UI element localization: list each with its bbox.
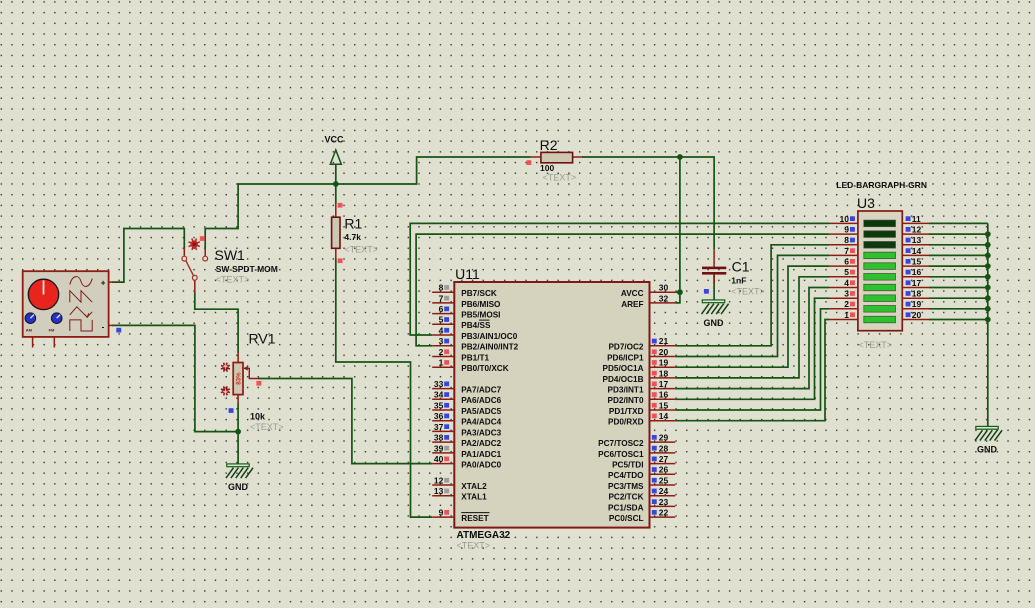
svg-text:AVCC: AVCC: [621, 289, 644, 298]
svg-text:XTAL1: XTAL1: [461, 493, 487, 502]
node: R2/C1/AVCC junction: [677, 154, 683, 160]
pin 33 PA7/ADC7: [432, 379, 501, 395]
svg-text:PA0/ADC0: PA0/ADC0: [461, 461, 501, 470]
svg-text:PB4/SS: PB4/SS: [461, 321, 491, 330]
wire: RV1 wiper to U11 pin 40 PA0: [258, 379, 432, 464]
pin 32 AREF: [621, 293, 675, 309]
svg-text:PA7/ADC7: PA7/ADC7: [461, 386, 501, 395]
svg-text:AREF: AREF: [621, 300, 643, 309]
svg-text:1: 1: [844, 310, 849, 320]
LED segment 8: [864, 295, 896, 302]
potentiometer RV1 10k: [221, 331, 284, 432]
svg-text:1: 1: [439, 358, 444, 368]
svg-text:-: -: [102, 322, 105, 331]
wire: U3 pin 19 to ground bus: [929, 308, 988, 310]
svg-text:PC4/TDO: PC4/TDO: [608, 471, 644, 480]
svg-text:SW-SPDT-MOM: SW-SPDT-MOM: [216, 264, 278, 274]
node: bus junction at U3 pin 16: [985, 274, 991, 280]
svg-text:3: 3: [844, 289, 849, 299]
svg-text:PC7/TOSC2: PC7/TOSC2: [598, 439, 644, 448]
LED segment 6: [864, 274, 896, 281]
svg-text:14: 14: [912, 246, 922, 256]
generator - pin state square: [116, 328, 121, 333]
pin 38 PA2/ADC2: [432, 433, 501, 449]
svg-text:PA1/ADC1: PA1/ADC1: [461, 450, 501, 459]
pin 15 (bargraph cathode): [902, 257, 929, 267]
pin 20 (bargraph cathode): [902, 310, 929, 320]
pin 26 PC4/TDO: [608, 465, 675, 481]
svg-text:GND: GND: [977, 445, 998, 455]
wire: generator + output to SW1 common: [112, 229, 184, 283]
signal generator (virtual instrument): [23, 271, 113, 347]
svg-text:FM: FM: [49, 328, 55, 333]
pin 16 PD2/INT0: [608, 390, 676, 406]
pin 21 PD7/OC2: [608, 336, 675, 352]
svg-text:LED-BARGRAPH-GRN: LED-BARGRAPH-GRN: [836, 180, 927, 190]
pin 30 AVCC: [621, 283, 675, 299]
pin 34 PA6/ADC6: [432, 390, 501, 406]
pin 4 PB3/AIN1/OC0: [432, 325, 518, 341]
node: bus junction at U3 pin 12: [985, 231, 991, 237]
svg-text:4: 4: [844, 278, 849, 288]
svg-text:20: 20: [659, 347, 669, 357]
svg-text:PD0/RXD: PD0/RXD: [608, 418, 644, 427]
wire: ground bus vertical to GND: [987, 223, 989, 426]
svg-text:17: 17: [912, 278, 922, 288]
LED segment 3: [864, 242, 896, 249]
svg-text:U3: U3: [857, 195, 875, 211]
pin 13 XTAL1: [432, 486, 487, 502]
pin 9 (bargraph anode): [829, 225, 858, 235]
wire: C1 bottom to GND: [713, 275, 715, 301]
node: ground node below RV1: [235, 429, 241, 435]
svg-text:C1: C1: [732, 258, 750, 274]
svg-text:13: 13: [434, 486, 444, 496]
svg-text:ATMEGA32: ATMEGA32: [457, 530, 511, 541]
svg-text:12: 12: [434, 475, 444, 485]
svg-text:21: 21: [659, 336, 669, 346]
svg-text:22: 22: [659, 508, 669, 518]
svg-text:PA2/ADC2: PA2/ADC2: [461, 439, 501, 448]
wire: rail down to AVCC and AREF pins: [675, 157, 680, 303]
svg-text:16: 16: [659, 390, 669, 400]
svg-text:U11: U11: [455, 266, 480, 282]
pin 27 PC5/TDI: [612, 454, 675, 470]
LED segment 9: [864, 306, 896, 313]
pin 6 PB5/MOSI: [432, 304, 500, 320]
svg-text:PD4/OC1B: PD4/OC1B: [603, 375, 644, 384]
svg-text:<TEXT>: <TEXT>: [543, 173, 577, 183]
svg-text:2: 2: [439, 347, 444, 357]
svg-text:RESET: RESET: [461, 514, 488, 523]
svg-text:40: 40: [434, 454, 444, 464]
svg-text:PB1/T1: PB1/T1: [461, 353, 489, 362]
svg-text:19: 19: [659, 358, 669, 368]
switch SW1 SW-SPDT-MOM: [182, 236, 278, 293]
svg-text:PC0/SCL: PC0/SCL: [609, 514, 644, 523]
wire: U11 PD0 to U3 pin 1: [675, 320, 829, 421]
pin 14 (bargraph cathode): [902, 246, 929, 256]
svg-text:19: 19: [912, 299, 922, 309]
node: AVCC pin junction: [677, 289, 683, 295]
svg-text:SW1: SW1: [215, 247, 246, 263]
svg-text:4: 4: [439, 325, 444, 335]
wire: VCC symbol to junction: [335, 164, 337, 184]
svg-text:PC6/TOSC1: PC6/TOSC1: [598, 450, 644, 459]
wire: U3 pin 13 to ground bus: [929, 244, 988, 246]
svg-text:10k: 10k: [250, 412, 266, 422]
svg-text:<TEXT>: <TEXT>: [344, 245, 378, 255]
pin 12 XTAL2: [432, 475, 487, 491]
pin 5 (bargraph anode): [829, 267, 858, 277]
svg-text:PA6/ADC6: PA6/ADC6: [461, 396, 501, 405]
pin 5 PB4/SS: [432, 315, 491, 331]
pin 20 PD6/ICP1: [607, 347, 675, 363]
ground below RV1: [226, 464, 253, 492]
pin 24 PC2/TCK: [608, 486, 675, 502]
LED segment 1: [864, 220, 896, 227]
svg-text:35: 35: [434, 400, 444, 410]
power symbol VCC: [325, 135, 345, 165]
pin 14 PD0/RXD: [608, 411, 675, 427]
svg-text:PC2/TCK: PC2/TCK: [608, 493, 643, 502]
node: bus junction at U3 pin 20: [985, 317, 991, 323]
svg-text:9: 9: [439, 508, 444, 518]
pin 11 (bargraph cathode): [902, 214, 929, 224]
node: VCC/R1/SW1/R2 junction: [333, 181, 339, 187]
wire: U11 PD3 to U3 pin 4: [675, 288, 829, 389]
pin 8 (bargraph anode): [829, 235, 858, 245]
svg-text:RV1: RV1: [249, 331, 276, 347]
svg-text:PC1/SDA: PC1/SDA: [608, 503, 644, 512]
svg-text:9: 9: [844, 225, 849, 235]
pin 13 (bargraph cathode): [902, 235, 929, 245]
svg-text:37: 37: [434, 422, 444, 432]
wire: U3 pin 12 to ground bus: [929, 233, 988, 235]
svg-text:XTAL2: XTAL2: [461, 482, 487, 491]
pin 9 RESET: [432, 508, 489, 524]
svg-text:5: 5: [844, 267, 849, 277]
pin 23 PC1/SDA: [608, 497, 675, 513]
svg-text:PB3/AIN1/OC0: PB3/AIN1/OC0: [461, 332, 517, 341]
svg-text:38: 38: [434, 433, 444, 443]
pin 19 PD5/OC1A: [603, 358, 676, 374]
pin 4 (bargraph anode): [829, 278, 858, 288]
pin 25 PC3/TMS: [608, 475, 675, 491]
pin 29 PC7/TOSC2: [598, 433, 675, 449]
svg-text:PB7/SCK: PB7/SCK: [461, 289, 497, 298]
pin 6 (bargraph anode): [829, 257, 858, 267]
svg-text:+: +: [101, 278, 106, 287]
wire: R2 right to C1 top / AVCC rail: [582, 157, 714, 250]
svg-text:6: 6: [844, 257, 849, 267]
svg-text:29: 29: [659, 433, 669, 443]
wire: U11 PD2 to U3 pin 3: [675, 298, 829, 399]
svg-text:14: 14: [659, 411, 669, 421]
svg-text:5: 5: [439, 315, 444, 325]
pin 37 PA3/ADC3: [432, 422, 501, 438]
wire: U3 pin 14 to ground bus: [929, 254, 988, 256]
svg-text:13: 13: [912, 235, 922, 245]
svg-text:PA3/ADC3: PA3/ADC3: [461, 428, 501, 437]
svg-text:11: 11: [912, 214, 921, 224]
svg-text:8: 8: [439, 283, 444, 293]
pin 3 (bargraph anode): [829, 289, 858, 299]
svg-text:26: 26: [659, 465, 669, 475]
pin 22 PC0/SCL: [609, 508, 675, 524]
wire: U3 pin 20 to ground bus: [929, 319, 988, 321]
svg-text:GND: GND: [228, 482, 249, 492]
node: bus junction at U3 pin 18: [985, 295, 991, 301]
svg-text:VCC: VCC: [325, 135, 345, 145]
svg-text:<TEXT>: <TEXT>: [216, 275, 250, 285]
pin 2 PB1/T1: [432, 347, 489, 363]
svg-text:25: 25: [659, 475, 669, 485]
wire: RV1 bottom to GND: [237, 404, 239, 464]
node: bus junction at U3 pin 15: [985, 263, 991, 269]
pin 2 (bargraph anode): [829, 299, 858, 309]
pin 17 PD3/INT1: [608, 379, 676, 395]
svg-text:7: 7: [844, 246, 849, 256]
svg-text:18: 18: [912, 289, 922, 299]
pin 15 PD1/TXD: [609, 400, 675, 416]
wire: U11 PD5 to U3 pin 6: [675, 266, 829, 367]
svg-text:24: 24: [659, 486, 669, 496]
wire: SW1 throw to R1/VCC junction: [205, 184, 336, 248]
capacitor C1 1nF: [702, 250, 765, 296]
LED segment 2: [864, 231, 896, 238]
svg-text:6: 6: [439, 304, 444, 314]
svg-text:1nF: 1nF: [731, 276, 746, 286]
ground at bargraph bus: [975, 426, 1002, 454]
pin 39 PA1/ADC1: [432, 443, 501, 459]
svg-text:16: 16: [912, 267, 922, 277]
svg-text:PA4/ADC4: PA4/ADC4: [461, 418, 501, 427]
resistor R1 4.7k: [332, 203, 378, 263]
svg-text:3: 3: [439, 336, 444, 346]
LED bargraph U3 LED-BARGRAPH-GRN: [829, 180, 929, 350]
pin 7 (bargraph anode): [829, 246, 858, 256]
svg-text:36: 36: [434, 411, 444, 421]
svg-text:83%: 83%: [236, 372, 243, 385]
svg-text:PD3/INT1: PD3/INT1: [608, 386, 644, 395]
wire: junction to R1 top: [335, 184, 337, 204]
svg-text:18: 18: [659, 368, 669, 378]
wire: U11 PD6 to U3 pin 7: [675, 255, 829, 356]
pin 16 (bargraph cathode): [902, 267, 929, 277]
wire: U3 pin 17 to ground bus: [929, 287, 988, 289]
svg-text:R2: R2: [540, 137, 558, 153]
LED segment 10: [864, 316, 896, 323]
svg-text:PB5/MOSI: PB5/MOSI: [461, 311, 500, 320]
pin 28 PC6/TOSC1: [598, 443, 675, 459]
wire: U11 PB3 to U3 pin 10 bus: [410, 223, 829, 335]
wire: U3 pin 16 to ground bus: [929, 276, 988, 278]
wire: SW1 pole down to RV1 top: [195, 293, 238, 353]
svg-text:PB0/T0/XCK: PB0/T0/XCK: [461, 364, 508, 373]
pin 40 PA0/ADC0: [432, 454, 501, 470]
pin 18 PD4/OC1B: [603, 368, 676, 384]
svg-text:PB2/AIN0/INT2: PB2/AIN0/INT2: [461, 343, 518, 352]
svg-text:17: 17: [659, 379, 669, 389]
wire: U11 PD7 to U3 pin 8: [675, 245, 829, 346]
svg-text:28: 28: [659, 443, 669, 453]
wire: U11 PD1 to U3 pin 2: [675, 309, 829, 410]
svg-text:12: 12: [912, 225, 922, 235]
svg-text:AM: AM: [26, 328, 33, 333]
wire: generator - output to ground node: [112, 325, 238, 431]
svg-text:PD7/OC2: PD7/OC2: [608, 343, 643, 352]
svg-text:<TEXT>: <TEXT>: [250, 422, 284, 432]
pin 35 PA5/ADC5: [432, 400, 501, 416]
svg-text:<TEXT>: <TEXT>: [731, 286, 765, 296]
pin 3 PB2/AIN0/INT2: [432, 336, 518, 352]
svg-text:4.7k: 4.7k: [344, 232, 361, 242]
node: bus junction at U3 pin 13: [985, 242, 991, 248]
svg-text:8: 8: [844, 235, 849, 245]
svg-text:23: 23: [659, 497, 669, 507]
svg-text:PC3/TMS: PC3/TMS: [608, 482, 644, 491]
svg-text:<TEXT>: <TEXT>: [859, 340, 893, 350]
svg-text:15: 15: [659, 400, 669, 410]
svg-text:100: 100: [540, 163, 554, 173]
pin 10 (bargraph anode): [829, 214, 858, 224]
node: bus junction at U3 pin 14: [985, 253, 991, 259]
resistor R2 100: [526, 137, 582, 183]
svg-text:PD1/TXD: PD1/TXD: [609, 407, 644, 416]
svg-text:2: 2: [844, 299, 849, 309]
svg-text:<TEXT>: <TEXT>: [457, 541, 491, 551]
wire: U11 PD4 to U3 pin 5: [675, 277, 829, 378]
node: bus junction at U3 pin 17: [985, 285, 991, 291]
wire: U3 pin 18 to ground bus: [929, 297, 988, 299]
svg-text:39: 39: [434, 443, 444, 453]
pin 8 PB7/SCK: [432, 283, 497, 299]
svg-text:PC5/TDI: PC5/TDI: [612, 461, 643, 470]
svg-text:PA5/ADC5: PA5/ADC5: [461, 407, 501, 416]
svg-text:33: 33: [434, 379, 444, 389]
svg-text:27: 27: [659, 454, 669, 464]
wire: U3 pin 11 to ground bus: [929, 222, 988, 224]
wire: U11 PB2 to U3 pin 9 bus: [416, 234, 829, 346]
svg-text:34: 34: [434, 390, 444, 400]
node: bus junction at U3 pin 19: [985, 306, 991, 312]
wire: R1 bottom to U11 pin 9 RESET: [336, 259, 432, 517]
svg-text:PD5/OC1A: PD5/OC1A: [603, 364, 644, 373]
LED segment 5: [864, 263, 896, 270]
svg-text:15: 15: [912, 257, 922, 267]
pin 19 (bargraph cathode): [902, 299, 929, 309]
op: microcontroller U11 ATMEGA32: [432, 266, 675, 550]
pin 17 (bargraph cathode): [902, 278, 929, 288]
pin 1 PB0/T0/XCK: [432, 358, 509, 374]
svg-text:GND: GND: [704, 318, 725, 328]
pin 7 PB6/MISO: [432, 293, 501, 309]
wire: U3 pin 15 to ground bus: [929, 265, 988, 267]
pin 12 (bargraph cathode): [902, 225, 929, 235]
pin 18 (bargraph cathode): [902, 289, 929, 299]
pin 36 PA4/ADC4: [432, 411, 501, 427]
svg-text:PD6/ICP1: PD6/ICP1: [607, 353, 644, 362]
svg-text:R1: R1: [344, 215, 362, 231]
LED segment 7: [864, 284, 896, 291]
ground below C1: [702, 300, 729, 328]
svg-text:PD2/INT0: PD2/INT0: [608, 396, 644, 405]
LED segment 4: [864, 252, 896, 259]
svg-text:7: 7: [439, 293, 444, 303]
svg-text:10: 10: [840, 214, 850, 224]
pin 1 (bargraph anode): [829, 310, 858, 320]
svg-text:PB6/MISO: PB6/MISO: [461, 300, 501, 309]
svg-text:32: 32: [659, 293, 669, 303]
svg-text:20: 20: [912, 310, 922, 320]
svg-text:30: 30: [659, 283, 669, 293]
wire: junction to R2 left: [336, 157, 531, 184]
